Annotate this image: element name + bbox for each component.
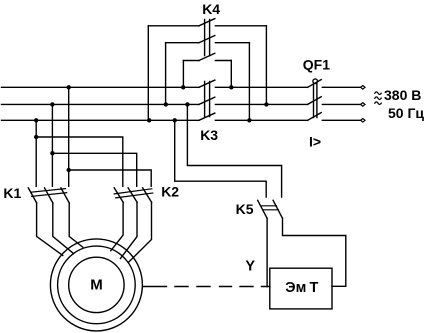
junction dot L3/K4 right — [247, 118, 251, 122]
svg-text:K4: K4 — [202, 1, 220, 17]
wire K1 pole3 lower — [69, 203, 83, 247]
junction dot L2/K5 tap — [185, 102, 189, 106]
svg-text:M: M — [90, 277, 103, 294]
wire K1 pole2 lower — [53, 203, 74, 254]
AC tilde symbol (3-phase) — [375, 92, 381, 105]
wire K5 left pole down to brake — [266, 218, 268, 286]
junction dot L3/K1 drop — [34, 118, 38, 122]
junction dot L2/K1 drop — [50, 102, 54, 106]
circuit breaker QF1 blade 1 — [308, 80, 322, 88]
junction dot L2/K4 left — [164, 102, 168, 106]
contactor K2 blade 1 — [114, 188, 123, 203]
junction dot h2 branch — [50, 151, 54, 155]
contactor K4 blade 2 — [199, 36, 215, 43]
contactor K4 blade 1 — [199, 19, 215, 26]
wire K1 pole1 lower — [37, 203, 63, 256]
terminal diamond line 3 — [361, 119, 365, 123]
contactor K4 row3 right wire — [215, 60, 231, 62]
contactor K3 blade 1 — [199, 80, 215, 87]
wire branch h2 to K2 — [52, 153, 136, 186]
dashed mechanical link motor to brake — [143, 286, 270, 288]
circuit breaker QF1 blade 2 — [308, 97, 322, 105]
svg-text:380 В: 380 В — [384, 87, 421, 103]
contactor K1 blade 1 — [28, 188, 36, 203]
wire branch h1 to K2 — [36, 137, 123, 186]
circuit breaker QF1 linkage double bar — [314, 84, 317, 118]
wire K4 row3 left vertical to L1 — [182, 61, 184, 88]
svg-text:50 Гц: 50 Гц — [388, 105, 424, 121]
wire power line L2 segments — [2, 103, 361, 105]
junction dot L2/K4 right — [264, 102, 268, 106]
contactor K2 blade 2 — [128, 188, 137, 203]
wire tap L2 to K5 right pole — [187, 104, 281, 197]
contactor K4 row2 left wire — [166, 42, 199, 44]
contactor K3 blade 3 — [199, 113, 215, 120]
terminal diamond line 1 — [361, 86, 365, 90]
svg-text:QF1: QF1 — [303, 57, 330, 73]
contactor K5 blade left — [258, 200, 267, 218]
wire K4 row2 right vertical to L3 — [248, 43, 250, 121]
svg-text:K1: K1 — [3, 185, 21, 201]
contactor K1 linkage double bar — [31, 189, 67, 197]
wire K1 phase drop from L3 — [35, 120, 37, 186]
electromagnetic brake box ЭмТ — [270, 268, 332, 309]
svg-text:K5: K5 — [236, 201, 254, 217]
wire K4 row2 left vertical to L2 — [165, 43, 167, 105]
svg-text:I>: I> — [309, 133, 321, 149]
svg-text:K3: K3 — [200, 127, 218, 143]
motor middle circle — [58, 246, 136, 324]
contactor K2 linkage double bar — [114, 189, 153, 198]
wire K1 phase drop from L1 — [68, 87, 70, 186]
motor inner circle — [69, 257, 124, 312]
wire power line L3 segments — [2, 119, 361, 121]
junction dot L3/K4 left — [147, 118, 151, 122]
wire K2 pole2 lower — [120, 202, 137, 258]
svg-text:K2: K2 — [161, 184, 179, 200]
contactor K4 row1 right wire — [215, 25, 266, 27]
contactor K1 blade 3 — [61, 188, 69, 203]
contactor K4 blade 3 — [199, 53, 215, 60]
wire tap L3 to K5 left pole — [175, 120, 267, 197]
circuit breaker QF1 blade 3 — [308, 113, 322, 121]
svg-text:Y: Y — [245, 259, 255, 275]
junction dot h1 branch — [34, 135, 38, 139]
contactor K3 linkage double bar — [205, 82, 210, 117]
terminal diamond line 2 — [361, 103, 365, 107]
svg-text:Эм: Эм — [285, 280, 306, 296]
contactor K4 row3 left wire — [183, 60, 199, 62]
wire K5 right pole to brake right side — [283, 218, 346, 286]
circuit breaker QF1 latch circle — [313, 79, 318, 84]
junction dot L1/K1 drop — [67, 85, 71, 89]
junction dot L1/K4 right — [229, 85, 233, 89]
wire K2 pole3 lower — [129, 202, 152, 262]
wire K1 phase drop from L2 — [51, 104, 53, 186]
junction dot L1/K4 left — [181, 85, 185, 89]
contactor K3 blade 2 — [199, 97, 215, 104]
contactor K4 row1 left wire — [148, 25, 199, 27]
wire K4 row1 left vertical to L3 — [147, 26, 149, 121]
junction dot L3/K5 tap — [173, 118, 177, 122]
motor outer circle — [50, 239, 142, 331]
wire branch h3 to K2 — [69, 170, 152, 186]
junction dot h3 branch — [67, 168, 71, 172]
wire K4 row3 right vertical to L1 — [230, 61, 232, 88]
contactor K1 blade 2 — [45, 188, 53, 203]
contactor K4 linkage double bar — [205, 20, 210, 56]
wire K4 row1 right vertical to L2 — [265, 26, 267, 105]
contactor K5 blade right — [273, 200, 282, 218]
contactor K4 row2 right wire — [215, 42, 249, 44]
wire K2 pole1 lower — [111, 202, 123, 250]
svg-text:Т: Т — [310, 280, 319, 296]
contactor K2 blade 3 — [143, 188, 152, 203]
contactor K5 linkage double bar — [261, 206, 279, 210]
wire power line L1 segments — [2, 86, 361, 88]
